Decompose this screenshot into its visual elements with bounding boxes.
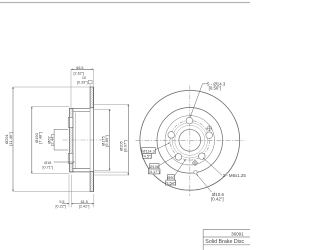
D10.6 hole <box>194 171 197 174</box>
dimension 61.5 <box>93 194 95 207</box>
svg-text:Solid Brake Disc: Solid Brake Disc <box>205 239 244 245</box>
svg-text:[7.48"]: [7.48"] <box>38 132 43 143</box>
disc ring section (hatched top) <box>90 87 93 108</box>
bolt hole cutout top <box>69 117 73 127</box>
bolt hole 3 (bottom left) <box>175 154 182 161</box>
bolt hole cutout bottom <box>69 153 73 163</box>
top border <box>0 2 250 4</box>
dimension D175 hat cylinder <box>109 109 111 170</box>
svg-text:[0.39"]: [0.39"] <box>77 80 88 84</box>
svg-text:2 - M6x1.25: 2 - M6x1.25 <box>223 173 247 178</box>
bolt hole boss bottom <box>68 153 69 163</box>
disc ring section (hatched bottom) <box>90 172 93 192</box>
svg-text:Ø90: Ø90 <box>167 175 175 180</box>
svg-text:61.5: 61.5 <box>81 200 88 204</box>
bolt circle (dash-dot) <box>170 121 210 161</box>
bolt hole 1 (top) <box>186 117 193 124</box>
hub circle D90 <box>175 125 205 155</box>
svg-text:[2.44"]: [2.44"] <box>50 134 55 145</box>
dimension D62 center bore bracket <box>54 129 68 150</box>
hub inner cylinder line <box>74 113 76 169</box>
dimension D190 hat outer diameter <box>31 107 33 174</box>
disc right face line <box>93 87 95 192</box>
flange circle <box>165 116 214 165</box>
section view centerline <box>63 139 104 141</box>
hat top wall <box>70 107 90 109</box>
svg-text:5.5: 5.5 <box>59 200 64 204</box>
dimension 66.5 height <box>71 68 94 70</box>
svg-text:[0.56"]: [0.56"] <box>209 86 222 91</box>
boxed label D106 <box>148 156 176 174</box>
boxed label D90 <box>165 160 185 186</box>
bolt hole 5 (right) <box>206 132 213 139</box>
hub flange (hatched) <box>69 108 73 172</box>
hat bottom wall <box>70 171 90 173</box>
outer diameter circle <box>140 90 240 190</box>
brake surface inner circle <box>157 108 223 174</box>
svg-text:[11.46"]: [11.46"] <box>8 132 13 145</box>
title block <box>203 229 250 250</box>
front view horizontal centerline <box>136 139 245 141</box>
boxed label D114.3 bolt circle <box>142 143 170 159</box>
svg-text:[0.71"]: [0.71"] <box>43 166 54 170</box>
bolt hole boss top <box>68 117 69 127</box>
svg-text:[4.5"]: [4.5"] <box>143 154 152 159</box>
M6 service hole 2 <box>206 125 212 131</box>
svg-text:66.5: 66.5 <box>76 66 83 70</box>
min thickness box <box>88 80 92 84</box>
dimension 5.5 flange thickness <box>68 175 70 208</box>
svg-text:Ø18: Ø18 <box>44 161 51 165</box>
svg-text:36091: 36091 <box>231 231 244 236</box>
dimension D205 swept inner <box>127 104 129 175</box>
disc left face middle line <box>89 108 91 172</box>
svg-text:[8.07"]: [8.07"] <box>122 140 127 151</box>
bolt hole 2 (left) <box>168 132 175 139</box>
hub circle D106 <box>172 123 207 158</box>
svg-text:[2.62"]: [2.62"] <box>74 72 85 76</box>
svg-text:[3.54"]: [3.54"] <box>165 180 176 185</box>
svg-text:Ø114.3: Ø114.3 <box>142 148 154 153</box>
M6 service hole 1 <box>192 160 198 166</box>
center bore circle <box>179 129 201 151</box>
bolt hole 4 (bottom right) <box>199 153 206 160</box>
svg-text:[4.17"]: [4.17"] <box>149 169 160 174</box>
svg-text:[2.42"]: [2.42"] <box>79 205 90 209</box>
dimension D291 outer diameter <box>12 87 14 191</box>
svg-text:[0.22"]: [0.22"] <box>56 205 67 209</box>
svg-text:[0.42"]: [0.42"] <box>211 196 224 201</box>
front view vertical centerline <box>189 86 191 197</box>
svg-text:[6.89"]: [6.89"] <box>104 135 109 146</box>
